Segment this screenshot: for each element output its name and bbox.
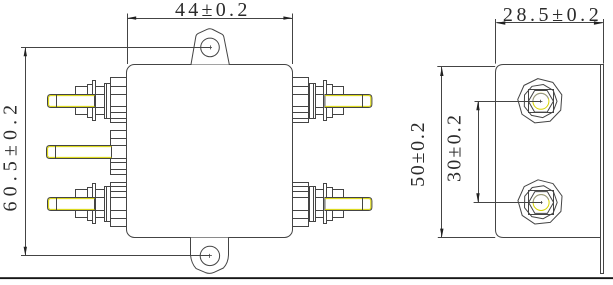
dimension 50±0.2 extension lines [437,66,495,68]
left bottom terminal pin [48,198,95,211]
dimension 60.5±0.2 line [25,47,27,256]
svg-text:60.5±0.2: 60.5±0.2 [0,100,22,212]
right bottom terminal pin [325,198,372,211]
svg-text:44±0.2: 44±0.2 [175,0,251,21]
dimension 28.5±0.2 line [496,22,603,24]
bottom border line [0,277,613,279]
mounting plate (edge-on) [601,65,604,274]
side view body [496,65,601,238]
svg-text:50±0.2: 50±0.2 [407,121,429,187]
right bottom terminal boss [293,183,309,227]
svg-text:28.5±0.2: 28.5±0.2 [503,4,602,26]
dimension 28.5±0.2 extension lines [495,19,497,64]
tab hole center marks [210,45,212,49]
right top terminal pin [325,95,372,108]
bottom tab hole [200,246,219,265]
dimension 50±0.2 line [441,67,443,238]
right bottom terminal hardware (nut+washers) [308,197,325,199]
bottom mounting tab [191,238,229,274]
right top terminal boss [293,78,309,123]
left top terminal pin [48,95,95,108]
top tab hole [201,38,220,57]
left top terminal boss [111,78,127,123]
left bottom terminal hardware (nut+washers) [94,197,111,199]
left middle terminal pin [47,146,112,159]
right top terminal hardware (nut+washers) [308,94,325,96]
dimension 30±0.2 line [478,101,480,202]
filter body (front view) [127,65,293,238]
left bottom terminal boss [111,183,127,227]
dimension 44±0.2 line [127,18,292,20]
dimension 60.5±0.2 extension lines [21,47,210,49]
dimension 30±0.2 extension lines [475,101,541,103]
dimension 44±0.2 extension lines [127,14,129,65]
svg-text:30±0.2: 30±0.2 [443,113,465,182]
left top terminal hardware (nut+washers) [94,94,111,96]
side-view terminal (bottom) [518,180,562,224]
side-view terminal (top) [518,79,562,123]
left middle terminal boss [111,131,127,175]
top mounting tab [191,29,229,65]
